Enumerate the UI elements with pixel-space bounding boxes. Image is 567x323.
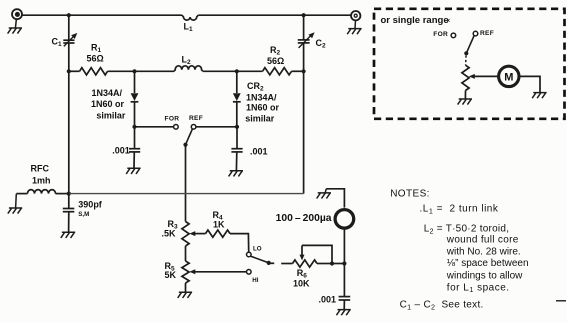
svg-text:.001: .001 <box>250 146 268 156</box>
switch S2 arm (LO to pole) <box>251 256 268 262</box>
svg-text:FOR: FOR <box>165 116 180 123</box>
svg-text:LO: LO <box>253 245 262 252</box>
ground (left .001) <box>126 168 140 174</box>
node S1 pole <box>183 143 187 147</box>
svg-text:RFC: RFC <box>31 164 50 174</box>
node RFC / 390pf junction <box>67 192 71 196</box>
svg-text:.001: .001 <box>319 294 337 304</box>
svg-text:windings to allow: windings to allow <box>446 270 523 281</box>
switch contact REF (inset) <box>473 31 478 36</box>
wire bottom row (node to right vertical) <box>69 193 304 195</box>
wire R6 node to meter line <box>332 263 344 265</box>
svg-text:NOTES:: NOTES: <box>390 189 430 200</box>
diode CR2 (1N34A) <box>233 71 241 127</box>
ground (RFC input, far left) <box>8 194 22 214</box>
ground (below J2) <box>347 21 361 35</box>
svg-text:.5K: .5K <box>162 229 177 239</box>
svg-text:M: M <box>504 71 513 83</box>
node S2 pole <box>267 261 271 265</box>
capacitor 390pf <box>63 194 75 233</box>
potentiometer R3 .5K <box>182 222 189 247</box>
svg-text:C1 – C2 See text.: C1 – C2 See text. <box>400 300 484 312</box>
svg-text:S,M: S,M <box>78 211 89 218</box>
wire R3-R5 link <box>185 246 187 261</box>
wire L2 to CR2 node <box>203 70 263 72</box>
svg-text:wound full core: wound full core <box>446 235 519 246</box>
ground (inset pot) <box>458 99 472 105</box>
ground (bottom .001) <box>336 310 350 316</box>
wiper arrow (inset pot) <box>469 74 498 79</box>
node pole (inset) <box>464 51 468 55</box>
wiper arrow R3 <box>189 231 205 236</box>
wire left vertical lower (C1 to bottom row) <box>68 43 70 194</box>
svg-text:56Ω: 56Ω <box>87 54 104 64</box>
wire RFC left stub <box>16 193 27 195</box>
svg-text:FOR: FOR <box>433 31 448 38</box>
svg-text:REF: REF <box>189 115 203 122</box>
resistor R4 1K <box>206 230 231 237</box>
wiper arrow R5 / wire to HI contact <box>189 269 246 274</box>
inductor RFC 1mh <box>28 190 56 194</box>
meter M (inset) <box>499 66 519 86</box>
diode CR1 (1N34A) <box>131 71 139 127</box>
svg-text:L2 = T·50·2 toroid,: L2 = T·50·2 toroid, <box>424 224 510 236</box>
svg-text:5K: 5K <box>165 270 177 280</box>
capacitor .001 (left) <box>129 127 140 169</box>
switch S1 contact REF <box>191 125 196 130</box>
svg-text:1K: 1K <box>213 219 225 229</box>
switch arm (inset, REF to pole) <box>466 36 474 54</box>
svg-text:.001: .001 <box>112 146 130 156</box>
rheostat R6 10K <box>293 260 318 267</box>
wire meter top to ground <box>326 189 344 208</box>
wire S1 pole down to R3 <box>185 145 187 222</box>
svg-text:similar: similar <box>96 111 126 121</box>
connector J1 (coax input, top-left) <box>12 9 22 19</box>
switch S2 contact HI <box>247 270 252 275</box>
node R6 right <box>330 261 334 265</box>
node R2 right (C2 bottom junction) <box>302 69 306 73</box>
capacitor C2 (variable) <box>298 35 311 48</box>
ground (R5) <box>178 292 192 298</box>
svg-text:REF: REF <box>480 30 494 37</box>
svg-text:100 – 200µa: 100 – 200µa <box>276 213 332 224</box>
potentiometer R5 5K <box>182 261 189 283</box>
svg-text:⅛” space between: ⅛” space between <box>447 258 529 269</box>
switch contact FOR (inset) <box>451 33 456 38</box>
svg-text:10K: 10K <box>293 278 310 288</box>
wire meter bottom vertical <box>343 229 345 297</box>
ground (390pf) <box>61 232 75 238</box>
resistor R1 <box>80 68 108 75</box>
node top-right (C2 top junction) <box>302 13 306 17</box>
switch S1 contact FOR <box>174 125 179 130</box>
potentiometer (inset) <box>462 65 469 90</box>
wire right vertical middle (C2 to R2) <box>303 43 305 71</box>
svg-text:56Ω: 56Ω <box>267 56 284 66</box>
wire S2 pole to R6 (with print gap) <box>269 262 293 264</box>
svg-text:1mh: 1mh <box>32 176 51 186</box>
wire R4 to LO contact <box>230 234 249 253</box>
wire R2 right stub <box>292 70 304 72</box>
capacitor .001 (right) <box>231 127 242 171</box>
wire R6 right to bypass node <box>317 263 332 265</box>
inductor L2 <box>174 66 203 72</box>
ground (right .001) <box>229 171 243 177</box>
svg-text:1N34A/: 1N34A/ <box>92 88 123 98</box>
ground (below J1) <box>8 19 22 34</box>
svg-text:HI: HI <box>252 277 258 284</box>
resistor R2 <box>263 68 292 75</box>
wire top row left (J1 to L1) <box>22 14 182 16</box>
wire R1 to CR1 node <box>108 70 175 72</box>
dashed box (single range option) <box>374 9 565 119</box>
ground (inset meter) <box>532 93 546 99</box>
wire RFC to node <box>56 193 69 195</box>
svg-text:1N60 or: 1N60 or <box>91 99 125 109</box>
wire R5 to ground <box>185 283 187 292</box>
wiper arrow R6 + bypass to right end <box>300 245 333 263</box>
wire top row right (L1 to J2) <box>198 14 351 16</box>
wire meter right to ground (inset) <box>519 76 540 92</box>
switch S2 contact LO <box>247 252 252 257</box>
inductor L1 (2-turn link) <box>182 15 198 20</box>
connector J2 (coax output, top-right) <box>351 11 360 20</box>
capacitor .001 (bottom) <box>339 297 351 310</box>
node meter line / R6 <box>342 261 346 265</box>
svg-text:or single range: or single range <box>381 15 449 26</box>
node top-left (C1 top junction) <box>67 13 71 17</box>
wire pole to pot (inset, dotted) <box>465 56 467 66</box>
node CR2 top (L2/R2 junction) <box>235 69 239 73</box>
svg-text:similar: similar <box>245 114 275 124</box>
ground (meter top) <box>317 189 331 199</box>
svg-text:1N34A/: 1N34A/ <box>246 93 277 103</box>
svg-text:1N60 or: 1N60 or <box>246 103 280 113</box>
svg-text:for L1 space.: for L1 space. <box>447 282 510 294</box>
meter M1 100-200ua <box>335 210 354 229</box>
svg-text:×: × <box>447 19 451 25</box>
node CR2 bottom <box>235 125 239 129</box>
svg-text:with No. 28 wire.: with No. 28 wire. <box>446 246 521 257</box>
wire right vertical lower (R2 junction down to bottom row) <box>303 71 305 193</box>
node CR1 bottom <box>132 125 136 129</box>
wire CR1 node to FOR contact <box>135 126 174 128</box>
svg-text:390pf: 390pf <box>78 200 103 210</box>
wire pot bottom (inset) <box>464 91 466 100</box>
capacitor C1 (variable) <box>63 36 74 46</box>
wire right vertical upper (top row to C2) <box>303 15 305 40</box>
switch S1 arm (pole to REF) <box>186 129 193 145</box>
node CR1 top (R1/L2 junction) <box>132 69 136 73</box>
node R1 left <box>67 69 71 73</box>
wire left vertical upper (J1 row to C1) <box>68 15 70 40</box>
wire R1 left stub <box>69 70 80 72</box>
stray print dash (right edge) <box>556 300 566 302</box>
wire REF contact to CR2 node <box>196 126 237 128</box>
